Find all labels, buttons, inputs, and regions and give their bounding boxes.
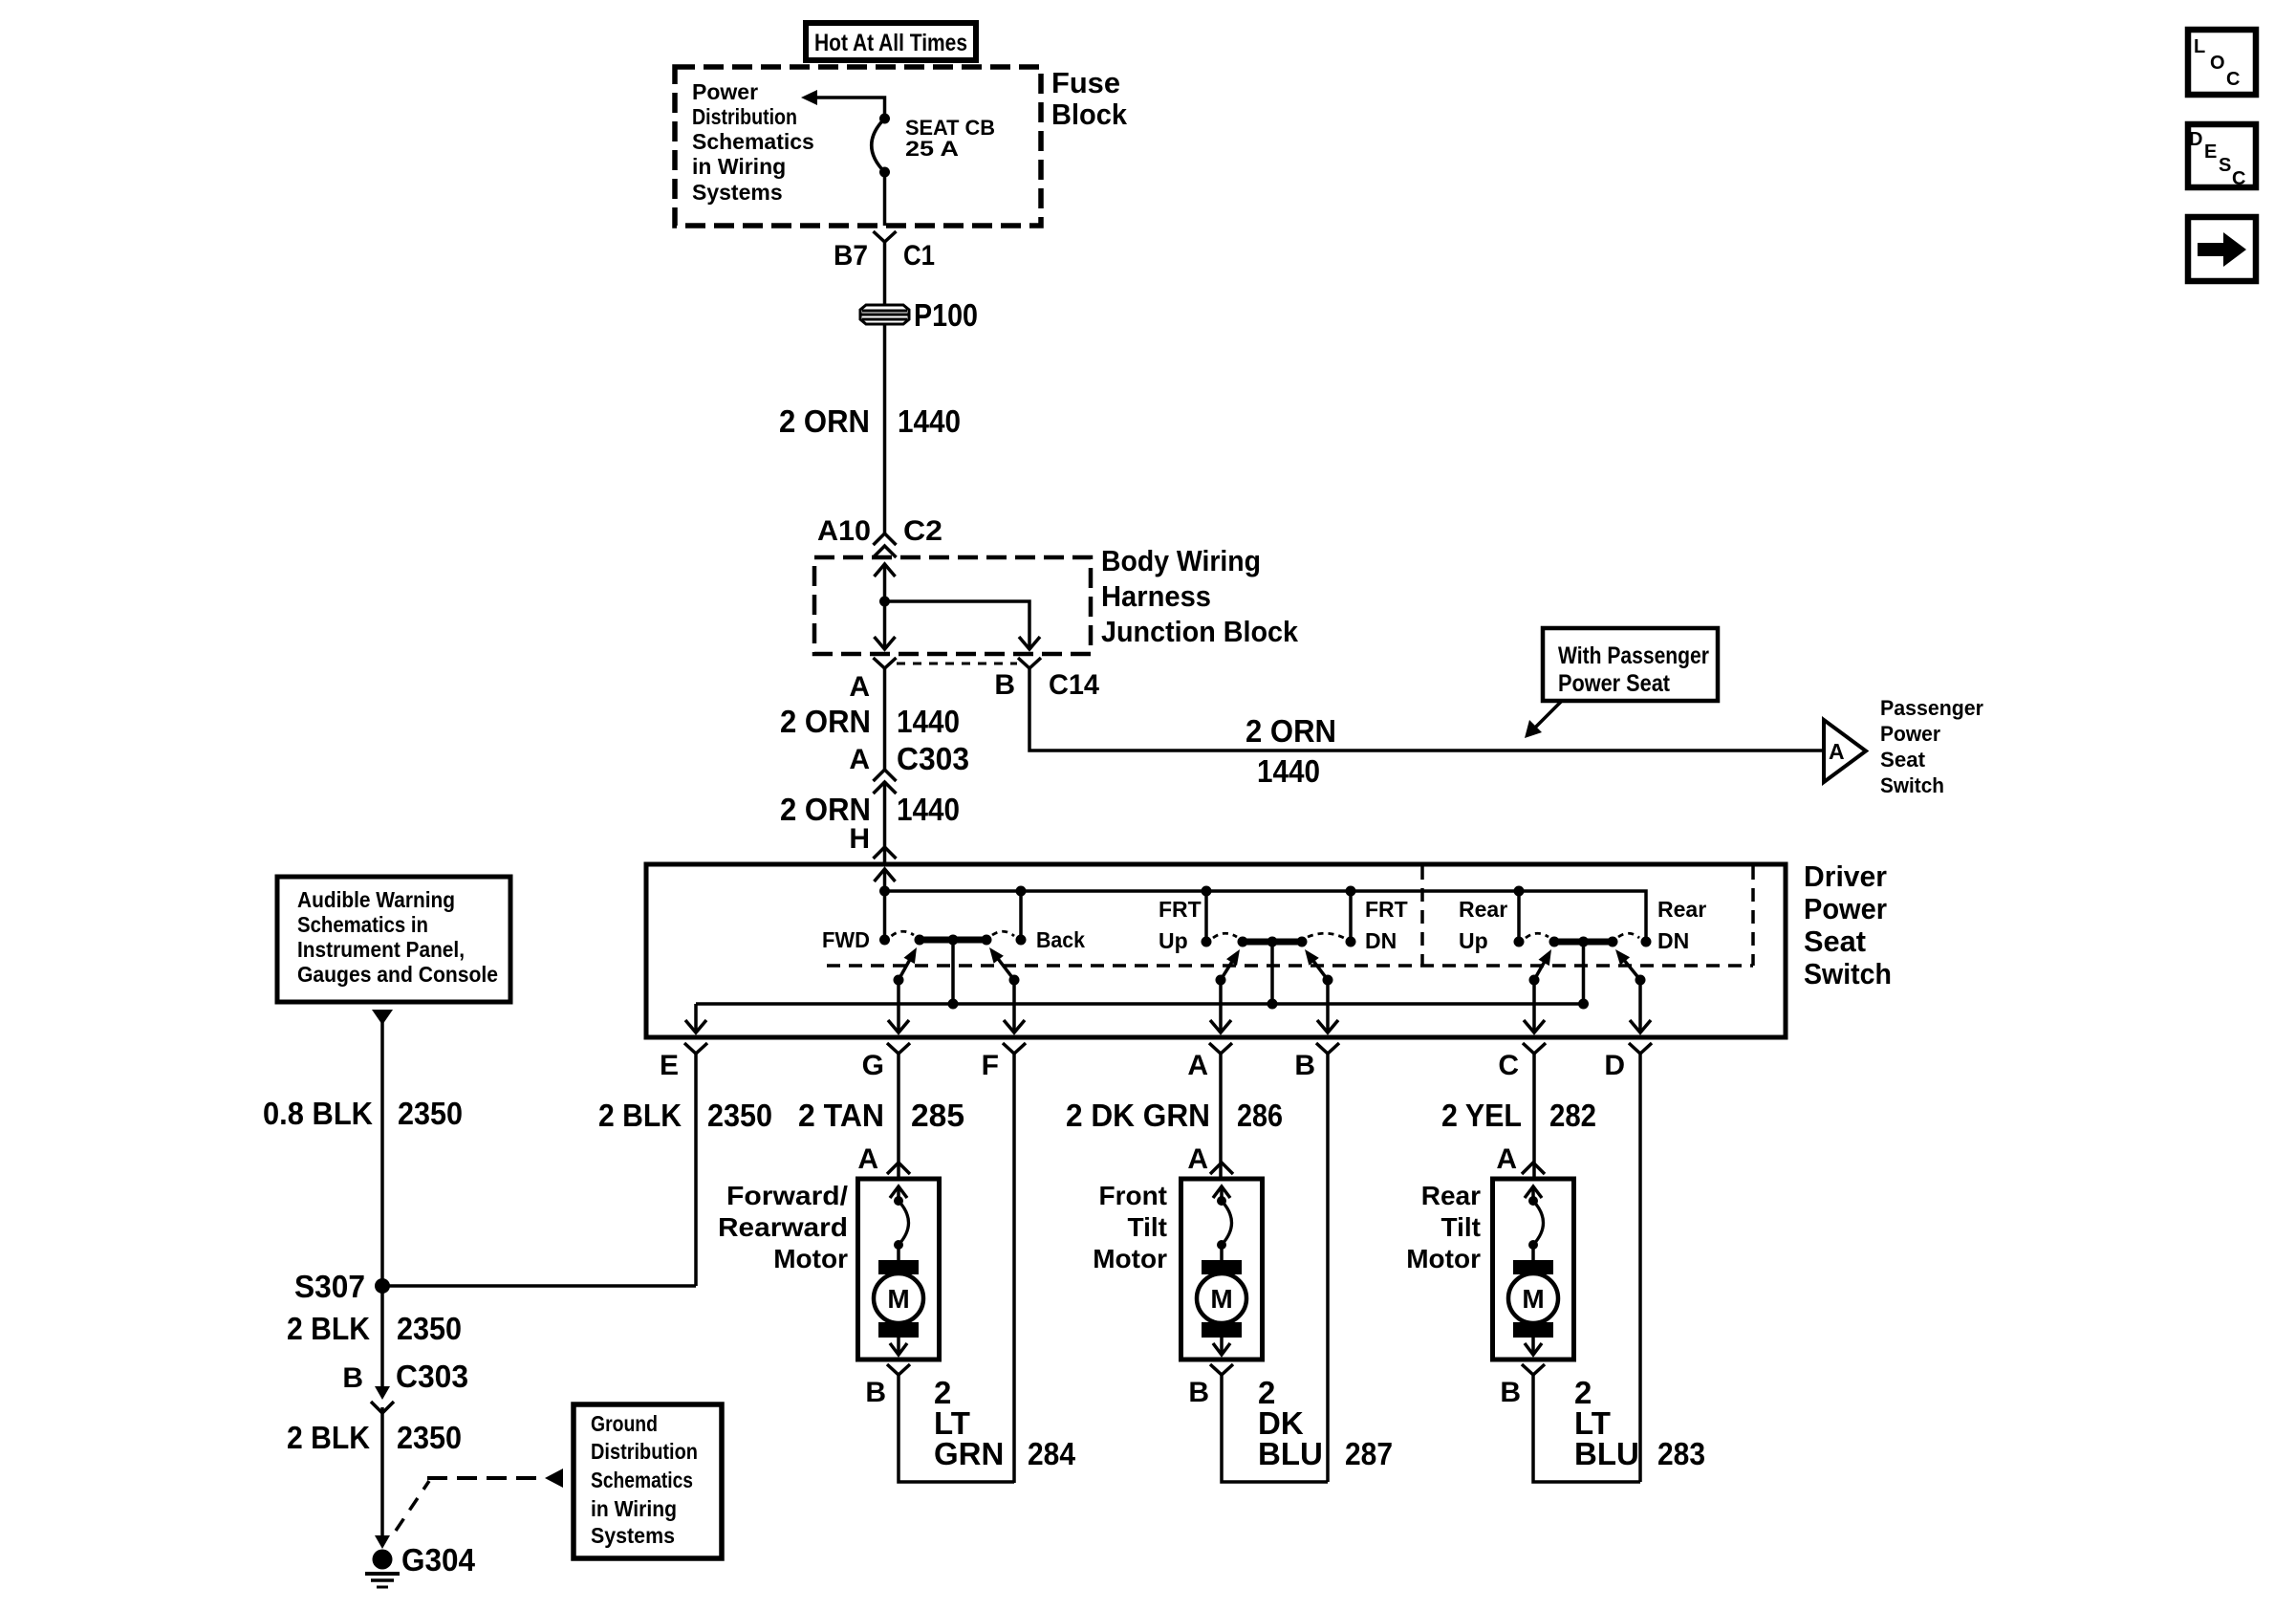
svg-text:2 YEL: 2 YEL <box>1441 1098 1522 1133</box>
callout pointer arrow <box>1525 701 1562 738</box>
connector C1 pin B7 <box>834 231 935 272</box>
svg-text:Distribution: Distribution <box>692 104 797 129</box>
svg-text:Forward/: Forward/ <box>726 1181 848 1210</box>
svg-text:FWD: FWD <box>822 927 870 952</box>
svg-text:C: C <box>1498 1050 1519 1081</box>
arrow to power distribution schematics <box>801 90 885 116</box>
connector C303 pin A <box>849 741 969 794</box>
LOC reference box <box>2188 30 2256 95</box>
svg-text:1440: 1440 <box>1257 753 1320 789</box>
connector C14 pins A and B <box>849 658 1099 703</box>
svg-text:Body Wiring: Body Wiring <box>1101 544 1261 577</box>
motor pin A (front tilt motor M2) <box>1187 1143 1233 1175</box>
svg-text:F: F <box>982 1050 999 1081</box>
svg-text:1440: 1440 <box>898 403 961 439</box>
svg-text:G: G <box>862 1050 884 1081</box>
svg-text:C303: C303 <box>396 1359 468 1394</box>
svg-text:284: 284 <box>1028 1436 1076 1471</box>
audible warning callout box <box>277 877 510 1002</box>
svg-text:C303: C303 <box>897 741 969 776</box>
FRT Up label <box>1159 897 1202 953</box>
wire label 2 LT BLU 283 <box>1574 1375 1705 1471</box>
svg-text:A: A <box>1187 1143 1208 1175</box>
svg-text:2 BLK: 2 BLK <box>287 1311 370 1346</box>
svg-text:2 ORN: 2 ORN <box>780 704 871 739</box>
driver power seat switch label <box>1804 859 1892 990</box>
svg-text:B: B <box>994 669 1015 701</box>
svg-text:Power: Power <box>692 79 758 104</box>
svg-text:P100: P100 <box>914 297 978 333</box>
svg-text:B: B <box>1294 1050 1315 1081</box>
svg-text:Seat: Seat <box>1880 748 1926 772</box>
wire P100 to C2 <box>883 324 887 535</box>
svg-text:DN: DN <box>1365 928 1397 953</box>
svg-text:Up: Up <box>1159 928 1188 953</box>
forward/rearward motor M1 <box>858 1179 940 1360</box>
switch pin C <box>1498 1043 1546 1081</box>
svg-text:H: H <box>849 823 870 855</box>
svg-text:Distribution: Distribution <box>591 1439 698 1464</box>
svg-text:Systems: Systems <box>692 180 783 205</box>
svg-text:FRT: FRT <box>1159 897 1202 922</box>
svg-text:Tilt: Tilt <box>1128 1212 1167 1242</box>
switch pin G <box>862 1043 910 1081</box>
svg-text:2 ORN: 2 ORN <box>779 403 870 439</box>
svg-text:A: A <box>849 671 870 703</box>
svg-text:Rear: Rear <box>1459 897 1507 922</box>
svg-text:287: 287 <box>1345 1436 1393 1471</box>
DESC reference box <box>2188 124 2256 189</box>
junction block internal wires <box>875 564 1041 649</box>
off-page connector A to passenger switch <box>1824 720 1866 782</box>
svg-text:Tilt: Tilt <box>1441 1212 1481 1242</box>
svg-text:2 ORN: 2 ORN <box>780 792 871 827</box>
motor pin B (rear tilt motor M3) <box>1500 1364 1545 1408</box>
motor pin B (front tilt motor M2) <box>1188 1364 1233 1408</box>
dashed pointer to ground distribution note <box>396 1469 563 1531</box>
power distribution note <box>692 79 814 205</box>
wire label 2 ORN 1440 <box>779 403 961 439</box>
svg-text:Harness: Harness <box>1101 579 1211 613</box>
svg-text:Power: Power <box>1804 892 1887 925</box>
svg-text:285: 285 <box>911 1098 964 1133</box>
wire label 2 ORN 1440 <box>780 792 960 827</box>
switch supply bus <box>885 891 1647 942</box>
svg-text:M: M <box>1522 1284 1544 1314</box>
svg-text:2350: 2350 <box>398 1096 463 1131</box>
svg-text:Front: Front <box>1098 1181 1167 1210</box>
svg-text:0.8 BLK: 0.8 BLK <box>263 1096 373 1131</box>
wire from audible warning to S307 <box>372 1010 393 1286</box>
svg-text:With Passenger: With Passenger <box>1558 642 1709 669</box>
switch pin B <box>1294 1043 1339 1081</box>
svg-text:Hot At All Times: Hot At All Times <box>814 30 967 56</box>
svg-text:Driver: Driver <box>1804 859 1887 893</box>
svg-text:B: B <box>1188 1377 1209 1408</box>
svg-text:in Wiring: in Wiring <box>692 154 786 179</box>
svg-text:1440: 1440 <box>897 792 960 827</box>
wire C303 to ground <box>380 1407 384 1541</box>
svg-text:2 BLK: 2 BLK <box>287 1420 370 1455</box>
wire label 2 ORN 1440 <box>780 704 960 739</box>
motor pin A (rear tilt motor M3) <box>1496 1143 1545 1175</box>
svg-text:Motor: Motor <box>773 1244 848 1273</box>
svg-text:M: M <box>887 1284 909 1314</box>
svg-text:L: L <box>2194 36 2205 57</box>
ground distribution note box <box>574 1404 722 1558</box>
forward-back switch contacts <box>879 886 1027 1033</box>
svg-text:S307: S307 <box>294 1269 365 1304</box>
svg-text:Power: Power <box>1880 722 1940 746</box>
svg-text:A: A <box>1187 1050 1208 1081</box>
internal dashed detent rail <box>827 964 1753 968</box>
svg-text:C: C <box>2226 69 2240 90</box>
wire label 2 BLK 2350 <box>598 1098 772 1133</box>
svg-text:Motor: Motor <box>1093 1244 1167 1273</box>
wire C303 to switch pin H <box>883 781 887 863</box>
FRT DN label <box>1365 897 1408 953</box>
svg-text:D: D <box>1604 1050 1625 1081</box>
svg-text:2 TAN: 2 TAN <box>798 1098 884 1133</box>
Hot At All Times banner <box>806 23 976 60</box>
wire motor B return loop <box>1222 1375 1328 1482</box>
rear tilt motor M3 <box>1493 1179 1574 1360</box>
svg-text:Motor: Motor <box>1406 1244 1481 1273</box>
svg-text:B: B <box>342 1362 363 1394</box>
fuse block label <box>1051 66 1128 131</box>
svg-text:S: S <box>2219 155 2231 176</box>
svg-text:A: A <box>857 1143 878 1175</box>
svg-text:BLU: BLU <box>1258 1436 1323 1471</box>
wire S307 to switch pin E <box>382 1284 696 1288</box>
svg-text:Power Seat: Power Seat <box>1558 670 1671 697</box>
svg-text:Ground: Ground <box>591 1411 658 1436</box>
with passenger power seat callout box <box>1543 628 1718 701</box>
svg-text:E: E <box>660 1050 679 1081</box>
switch pin F <box>982 1043 1026 1081</box>
svg-text:2350: 2350 <box>397 1311 462 1346</box>
svg-text:2350: 2350 <box>397 1420 462 1455</box>
svg-text:O: O <box>2210 53 2225 74</box>
forward navigation arrow box <box>2188 217 2256 281</box>
svg-text:E: E <box>2204 141 2217 163</box>
svg-text:Fuse: Fuse <box>1051 66 1120 99</box>
svg-text:G304: G304 <box>401 1542 476 1577</box>
wire CB to fuse block edge <box>883 172 887 226</box>
svg-text:2350: 2350 <box>707 1098 772 1133</box>
front tilt motor M2 label <box>1093 1181 1167 1273</box>
svg-text:Instrument Panel,: Instrument Panel, <box>297 937 465 962</box>
wire label 2 LT GRN 284 <box>934 1375 1076 1471</box>
motor pin A (forward/rearward motor M1) <box>857 1143 910 1175</box>
switch pin A <box>1187 1043 1232 1081</box>
switch pin E <box>660 1043 707 1081</box>
svg-text:Passenger: Passenger <box>1880 696 1983 720</box>
ground G304 <box>365 1535 476 1587</box>
splice S307 <box>294 1269 390 1304</box>
svg-text:C1: C1 <box>903 240 935 272</box>
svg-text:B: B <box>1500 1377 1521 1408</box>
svg-text:Rear: Rear <box>1421 1181 1481 1210</box>
svg-text:A: A <box>849 744 870 775</box>
svg-text:Up: Up <box>1459 928 1488 953</box>
wire S307 to C303 <box>380 1286 384 1389</box>
rear tilt motor M3 label <box>1406 1181 1481 1273</box>
svg-text:2 DK GRN: 2 DK GRN <box>1066 1098 1210 1133</box>
pin wires <box>696 1054 1640 1483</box>
lower common bus <box>685 1004 1583 1033</box>
svg-text:C: C <box>2232 168 2245 189</box>
wire motor B return loop <box>1533 1375 1640 1482</box>
wire C1 to P100 <box>883 242 887 305</box>
svg-text:BLU: BLU <box>1574 1436 1639 1471</box>
svg-text:B: B <box>865 1377 886 1408</box>
connector C303 pin B <box>342 1359 468 1413</box>
rear tilt switch contacts <box>1514 886 1652 1033</box>
wire label 2 BLK 2350 <box>287 1420 462 1455</box>
svg-text:1440: 1440 <box>897 704 960 739</box>
junction block label <box>1101 544 1299 648</box>
wire label 2 TAN 285 <box>798 1098 964 1133</box>
svg-text:Gauges and Console: Gauges and Console <box>297 962 498 987</box>
Rear Up label <box>1459 897 1507 953</box>
wire motor B return loop <box>899 1375 1014 1482</box>
fuse block dashed box <box>675 67 1041 226</box>
svg-text:286: 286 <box>1237 1098 1283 1133</box>
svg-text:A10: A10 <box>817 515 871 547</box>
connector C2 pin A10 <box>817 515 942 557</box>
svg-text:GRN: GRN <box>934 1436 1004 1471</box>
switch pin D <box>1604 1043 1652 1081</box>
wire label 2 ORN 1440 <box>1245 713 1336 789</box>
svg-text:2 BLK: 2 BLK <box>598 1098 682 1133</box>
wire A to C303 <box>883 668 887 771</box>
Rear DN label <box>1657 897 1706 953</box>
svg-text:Schematics in: Schematics in <box>297 912 428 937</box>
svg-text:Schematics: Schematics <box>591 1468 693 1492</box>
body wiring harness junction block dashed box <box>814 557 1091 654</box>
svg-text:Block: Block <box>1051 98 1128 131</box>
svg-text:M: M <box>1210 1284 1232 1314</box>
svg-text:Switch: Switch <box>1880 773 1944 797</box>
svg-text:2 ORN: 2 ORN <box>1245 713 1336 749</box>
front tilt switch contacts <box>1202 886 1356 1033</box>
SEAT CB 25 A label <box>905 116 995 161</box>
svg-text:Switch: Switch <box>1804 957 1892 990</box>
svg-text:Back: Back <box>1036 927 1085 952</box>
svg-text:A: A <box>1829 739 1845 764</box>
svg-text:Audible Warning: Audible Warning <box>297 887 455 912</box>
driver power seat switch box <box>646 864 1786 1037</box>
wire label 0.8 BLK 2350 <box>263 1096 463 1131</box>
forward/rearward motor M1 label <box>718 1181 848 1273</box>
wire C14-B to passenger power seat switch <box>1029 668 1824 751</box>
svg-text:A: A <box>1496 1143 1517 1175</box>
passenger power seat switch label <box>1880 696 1983 797</box>
wire label 2 YEL 282 <box>1441 1098 1596 1133</box>
svg-text:Junction Block: Junction Block <box>1101 615 1299 648</box>
svg-text:25 A: 25 A <box>905 137 959 161</box>
svg-text:C2: C2 <box>903 515 942 547</box>
svg-text:283: 283 <box>1657 1436 1705 1471</box>
svg-text:FRT: FRT <box>1365 897 1408 922</box>
svg-text:C14: C14 <box>1049 669 1099 701</box>
circuit breaker SEAT CB 25 A <box>872 114 890 178</box>
grommet P100 <box>860 297 978 333</box>
switch pin H <box>849 823 896 859</box>
switch feed entry from pin H <box>875 869 896 891</box>
svg-text:B7: B7 <box>834 240 868 272</box>
svg-text:Schematics: Schematics <box>692 129 814 154</box>
svg-text:Seat: Seat <box>1804 925 1866 958</box>
wire label 2 DK BLU 287 <box>1258 1375 1393 1471</box>
svg-text:DN: DN <box>1657 928 1689 953</box>
svg-text:282: 282 <box>1549 1098 1596 1133</box>
svg-text:D: D <box>2189 129 2202 150</box>
svg-text:Rearward: Rearward <box>718 1212 848 1242</box>
front tilt motor M2 <box>1181 1179 1263 1360</box>
wire label 2 BLK 2350 <box>287 1311 462 1346</box>
motor pin B (forward/rearward motor M1) <box>865 1364 910 1408</box>
wire label 2 DK GRN 286 <box>1066 1098 1283 1133</box>
svg-text:Rear: Rear <box>1657 897 1706 922</box>
svg-text:Systems: Systems <box>591 1523 675 1548</box>
svg-text:in Wiring: in Wiring <box>591 1496 677 1521</box>
